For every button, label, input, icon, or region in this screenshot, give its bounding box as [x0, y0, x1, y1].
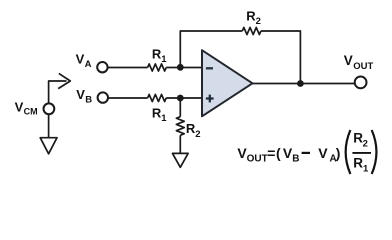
op-amp plus pin	[206, 95, 214, 103]
op-amp U1	[202, 50, 253, 116]
wire VA input to R1	[108, 67, 148, 69]
terminal VOUT	[355, 77, 367, 89]
wire R1 to op-amp plus input	[166, 97, 202, 99]
label VA	[76, 52, 92, 71]
svg-text:V: V	[15, 99, 24, 114]
label R2 (to ground)	[186, 121, 201, 140]
svg-text:V: V	[318, 145, 328, 161]
svg-text:V: V	[76, 52, 85, 67]
svg-text:1: 1	[161, 113, 167, 124]
svg-text:=: =	[267, 145, 275, 161]
svg-text:A: A	[85, 59, 92, 70]
svg-text:1: 1	[161, 54, 167, 65]
svg-text:V: V	[76, 87, 85, 102]
svg-text:B: B	[85, 95, 92, 106]
label VOUT	[344, 53, 374, 72]
svg-text:OUT: OUT	[247, 153, 268, 164]
svg-text:B: B	[292, 154, 299, 165]
svg-text:1: 1	[363, 163, 369, 174]
formula big parenthesis right	[372, 130, 377, 174]
wire VB node down to R2	[179, 98, 181, 117]
svg-text:2: 2	[363, 139, 368, 150]
label R1 (VB line)	[152, 106, 167, 124]
svg-text:2: 2	[195, 129, 200, 140]
wire VCM down to ground	[48, 115, 50, 138]
node A (minus input junction)	[177, 64, 184, 71]
label VB	[76, 87, 92, 106]
label R2 (feedback)	[246, 8, 261, 27]
wire op-amp output	[253, 83, 356, 85]
svg-text:CM: CM	[24, 107, 38, 117]
arrowhead (common-mode arrow)	[58, 73, 70, 88]
ground (below VCM source)	[40, 138, 57, 154]
op-amp minus pin	[206, 67, 213, 69]
resistor R1 (bottom, on VB line)	[148, 94, 167, 101]
wire VB input to R1	[108, 97, 147, 99]
node OUT (output junction)	[297, 80, 304, 87]
svg-text:V: V	[344, 53, 353, 68]
resistor R2 (feedback)	[242, 27, 261, 34]
label VCM	[15, 99, 38, 116]
resistor R1 (top, on VA line)	[148, 64, 167, 71]
formula VOUT = (VB - VA)(R2/R1)	[237, 145, 340, 164]
wire R2 to ground	[179, 135, 181, 153]
wire feedback: R2 to top-right corner to output node	[261, 31, 301, 84]
node B (plus input junction)	[177, 95, 184, 102]
svg-text:2: 2	[256, 16, 261, 27]
terminal VA	[97, 62, 107, 72]
svg-text:R: R	[353, 156, 363, 171]
terminal VB	[98, 92, 108, 102]
formula big parenthesis left	[346, 130, 351, 174]
svg-text:(: (	[276, 145, 281, 161]
resistor R2 (to ground, vertical)	[176, 117, 184, 136]
svg-text:OUT: OUT	[353, 61, 373, 72]
wire feedback: node to top-left corner to R2	[180, 31, 242, 68]
ground (below R2)	[173, 153, 189, 167]
wire VCM up and right (arrow shaft)	[49, 81, 67, 103]
svg-text:): )	[336, 145, 341, 161]
source VCM	[44, 103, 55, 114]
label R1 (VA line)	[152, 47, 167, 65]
wire R1 to op-amp minus input	[166, 67, 202, 69]
formula fraction R2 over R1	[352, 131, 371, 175]
